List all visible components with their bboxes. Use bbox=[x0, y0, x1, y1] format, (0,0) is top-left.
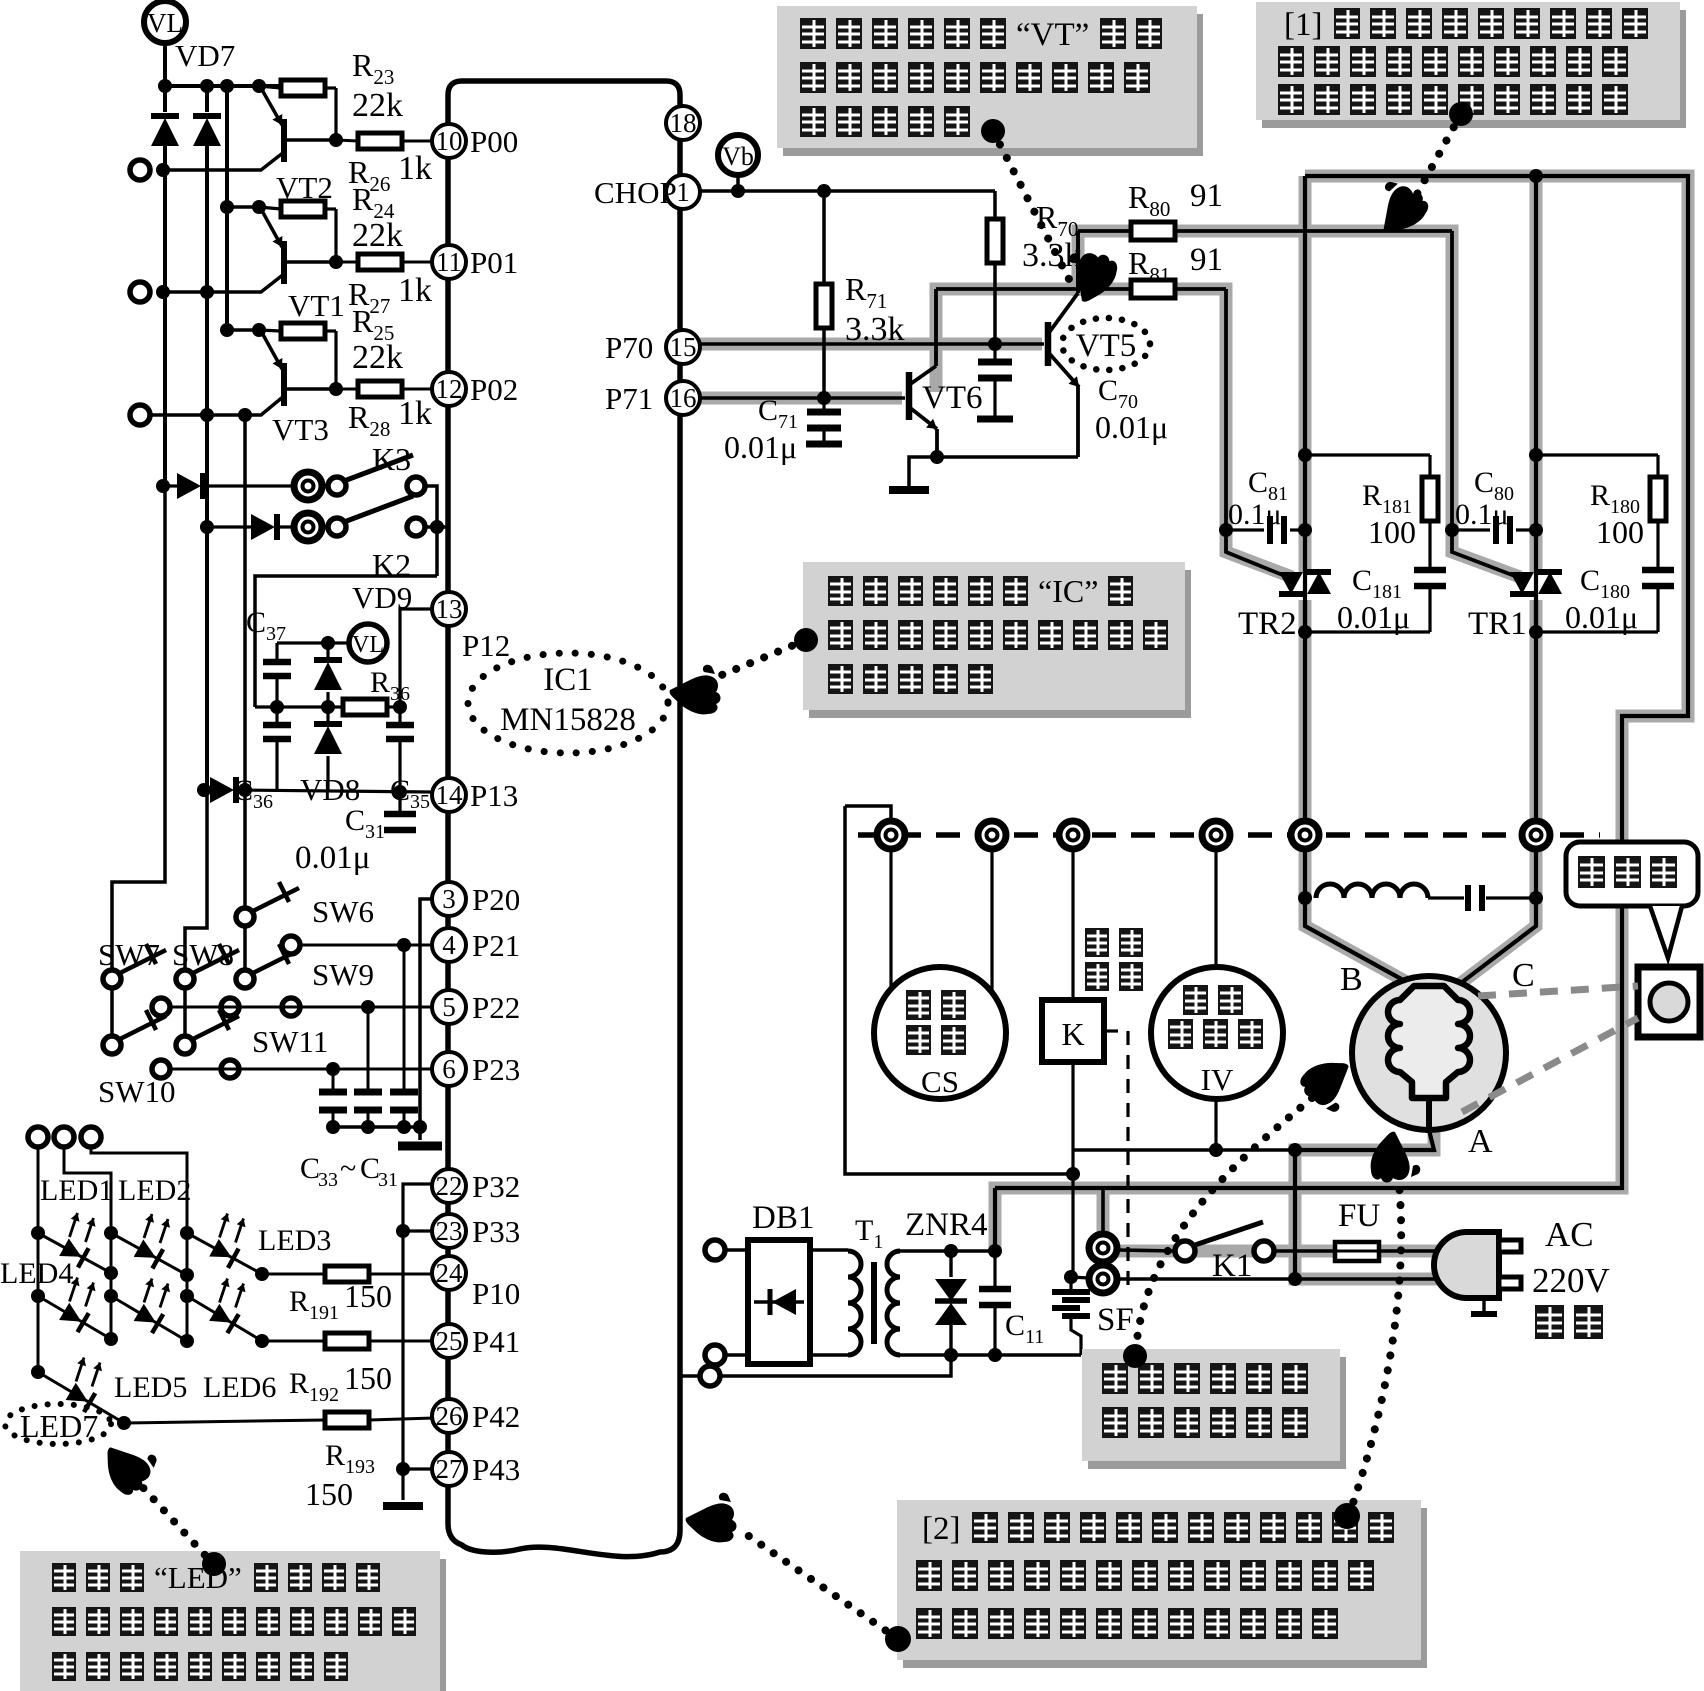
diode VD7 left bbox=[163, 86, 167, 112]
svg-text:“LED”: “LED” bbox=[154, 1560, 242, 1595]
IC pin 23 bbox=[432, 1214, 466, 1248]
svg-text:K1: K1 bbox=[1212, 1248, 1252, 1284]
diode D36 on pin14 wire bbox=[197, 783, 211, 797]
inductor motor aux winding bbox=[1298, 891, 1312, 905]
leader IC note to IC1 bbox=[712, 640, 806, 679]
wire VL rail down left column x165 bbox=[163, 146, 167, 486]
svg-text:1: 1 bbox=[676, 177, 690, 207]
transistor VT3 (PNP) bbox=[281, 363, 287, 406]
svg-text:0.1μ: 0.1μ bbox=[1228, 498, 1282, 531]
resistor R24 22k bbox=[259, 207, 281, 209]
wire IV bottom bbox=[1214, 1099, 1217, 1150]
gray highlighted power path casing bbox=[690, 176, 1688, 1279]
terminal T3out bbox=[130, 405, 150, 425]
svg-text:P21: P21 bbox=[472, 928, 520, 963]
motor M bbox=[1352, 976, 1506, 1130]
svg-text:C: C bbox=[300, 1152, 320, 1185]
IC pin 26 bbox=[432, 1399, 466, 1433]
ground VT6 bbox=[889, 486, 929, 494]
wire CHOP row bbox=[700, 189, 995, 193]
wire VT1 feed row y207 bbox=[227, 205, 259, 209]
wire secondary top bbox=[900, 1249, 995, 1252]
leader VT note to VT5 bbox=[993, 131, 1072, 285]
svg-text:18: 18 bbox=[670, 108, 697, 138]
IC pin 24 bbox=[432, 1256, 466, 1290]
svg-text:P70: P70 bbox=[605, 330, 653, 365]
switch K3 bbox=[294, 472, 322, 500]
svg-text:27: 27 bbox=[436, 1454, 463, 1484]
svg-text:25: 25 bbox=[436, 1326, 463, 1356]
wire R80 to TR1 gate bbox=[1452, 231, 1520, 578]
svg-text:A: A bbox=[1468, 1123, 1493, 1160]
svg-text:LED1: LED1 bbox=[40, 1174, 113, 1207]
wire LED column3 bbox=[91, 1147, 187, 1341]
terminal DB1 in- bbox=[705, 1345, 725, 1365]
wire TR1 rail lower bbox=[1457, 600, 1536, 986]
wire motor A to plug neutral bbox=[1293, 1150, 1297, 1279]
svg-text:SW11: SW11 bbox=[252, 1024, 328, 1059]
svg-text:P02: P02 bbox=[470, 372, 518, 407]
svg-text:VL: VL bbox=[352, 632, 384, 658]
switch K1 bbox=[1175, 1241, 1195, 1261]
capacitor motor run cap bbox=[1428, 896, 1464, 899]
svg-text:23: 23 bbox=[436, 1216, 463, 1246]
wire column x245 down to SW6/SW9 bbox=[243, 415, 247, 917]
svg-text:P71: P71 bbox=[605, 381, 653, 416]
clutch dashed pointer1 bbox=[1478, 986, 1638, 996]
svg-text:14: 14 bbox=[436, 780, 464, 810]
transistor VT5 (NPN) bbox=[1045, 322, 1052, 366]
triac TR2 bbox=[1303, 560, 1307, 632]
svg-text:B: B bbox=[1340, 961, 1363, 998]
wire top supply loop bbox=[995, 176, 1688, 1188]
svg-text:LED2: LED2 bbox=[118, 1174, 191, 1207]
svg-text:FU: FU bbox=[1338, 1198, 1380, 1234]
diode VD9 (zener) bbox=[326, 643, 329, 658]
wire LED column1 bbox=[37, 1147, 40, 1372]
wire TR2 rail upper bbox=[1303, 176, 1307, 560]
capacitor C33 bbox=[332, 1069, 335, 1092]
svg-text:K3: K3 bbox=[372, 441, 411, 477]
svg-text:150: 150 bbox=[344, 1360, 392, 1396]
svg-text:22k: 22k bbox=[352, 339, 403, 376]
svg-text:100: 100 bbox=[1596, 514, 1644, 550]
wire left neutral rail bbox=[845, 806, 891, 823]
wire TR1 rail upper bbox=[1534, 176, 1538, 560]
svg-text:10: 10 bbox=[436, 126, 463, 156]
wire LED row2 to R192 bbox=[262, 1340, 325, 1343]
svg-text:IV: IV bbox=[1201, 1062, 1234, 1097]
svg-text:4: 4 bbox=[442, 930, 456, 960]
bus connector CS2 bbox=[978, 821, 1006, 849]
transformer T1 bbox=[848, 1251, 861, 1355]
IC pin 18 bbox=[666, 106, 700, 140]
svg-text:5: 5 bbox=[442, 992, 456, 1022]
svg-text:~: ~ bbox=[340, 1152, 356, 1185]
svg-text:[2]: [2] bbox=[922, 1511, 960, 1547]
annotation box VT note bbox=[783, 14, 1203, 156]
svg-text:22k: 22k bbox=[352, 217, 403, 254]
diode K3 feed bbox=[156, 479, 170, 493]
snubber R180 100 bbox=[1536, 453, 1658, 456]
svg-text:P42: P42 bbox=[472, 1399, 520, 1434]
IC pin 16 P71 bbox=[666, 381, 700, 415]
switch SW10 bbox=[110, 988, 114, 1036]
IC pin 15 P70 bbox=[666, 330, 700, 364]
wire VL stem bbox=[163, 43, 167, 86]
wire P71 row bbox=[700, 396, 905, 400]
wire plug neutral bbox=[1295, 1277, 1452, 1281]
clutch box bbox=[1638, 967, 1700, 1037]
resistor R71 3.3k bbox=[822, 191, 826, 284]
resistor R23 22k bbox=[259, 86, 281, 88]
capacitor C70 0.01u bbox=[993, 344, 996, 362]
bus connector IV bbox=[1202, 821, 1230, 849]
wire emitter common to ground bbox=[909, 457, 1078, 487]
wire K1 to FU bbox=[1274, 1249, 1335, 1253]
svg-text:SW7: SW7 bbox=[98, 937, 160, 972]
mech dashed link K to K1 bbox=[1104, 1029, 1128, 1032]
capacitor C180 0.01u bbox=[1656, 521, 1659, 570]
switch coil K box bbox=[1071, 849, 1074, 1000]
inlet valve IV circle bbox=[1214, 849, 1217, 975]
wire K3 output to K2 node and IC edge bbox=[425, 486, 437, 576]
svg-text:P33: P33 bbox=[472, 1214, 520, 1249]
diode VD7 right bbox=[205, 86, 209, 112]
svg-text:0.01μ: 0.01μ bbox=[1095, 409, 1168, 445]
annotation box [1] note bbox=[1262, 10, 1686, 128]
annotation box IC note bbox=[809, 570, 1191, 718]
svg-text:SF: SF bbox=[1097, 1302, 1134, 1338]
wire pin22/23/27 ground column bbox=[403, 1184, 433, 1500]
IC U1 IC1 MN15828 body outline bbox=[448, 81, 680, 1557]
capacitor C181 0.01u bbox=[1428, 521, 1431, 570]
ground pin27 column bbox=[383, 1502, 423, 1510]
wire SW9 column continue bbox=[243, 926, 247, 970]
resistor R36 bbox=[343, 699, 387, 715]
IC pin 6 bbox=[432, 1052, 466, 1086]
svg-text:“IC”: “IC” bbox=[1038, 573, 1098, 609]
resistor R193 150 bbox=[325, 1412, 369, 1428]
svg-text:100: 100 bbox=[1368, 514, 1416, 550]
IC pin 22 bbox=[432, 1169, 466, 1203]
AC plug bbox=[1434, 1232, 1499, 1298]
terminal LEDcol1 bbox=[28, 1127, 48, 1147]
connector pair upper bbox=[1089, 1234, 1117, 1262]
svg-text:C: C bbox=[360, 1152, 380, 1185]
wire LED row1 to R191 bbox=[262, 1273, 325, 1276]
snubber R181 100 bbox=[1305, 453, 1430, 456]
switch SW8 bbox=[176, 970, 194, 988]
wire second column x207 down bbox=[205, 146, 209, 790]
bus connector CS1 bbox=[877, 821, 905, 849]
wire AC return to ZNR node bbox=[681, 1374, 700, 1377]
svg-text:K: K bbox=[1061, 1016, 1084, 1052]
svg-text:31: 31 bbox=[378, 1169, 398, 1191]
svg-text:15: 15 bbox=[670, 332, 697, 362]
svg-text:LED7: LED7 bbox=[20, 1408, 98, 1444]
wire R81 to TR2 gate bbox=[1226, 289, 1290, 578]
clutch dashed pointer2 bbox=[1462, 1018, 1638, 1112]
wire SW10/11 row to pin6 bbox=[170, 1068, 433, 1071]
svg-text:DB1: DB1 bbox=[752, 1200, 814, 1236]
diode VD8 (zener) bbox=[326, 707, 329, 722]
capacitor C81 0.1u bbox=[1226, 528, 1264, 531]
svg-text:Vb: Vb bbox=[722, 142, 754, 171]
LED7 dotted ellipse bbox=[5, 1404, 111, 1444]
capacitor C32 bbox=[367, 1007, 370, 1092]
leader [2] to IC bottom bbox=[740, 1530, 898, 1639]
svg-text:TR1: TR1 bbox=[1468, 606, 1527, 642]
svg-text:150: 150 bbox=[305, 1476, 353, 1512]
switch SW7 bbox=[103, 970, 121, 988]
varistor ZNR4 bbox=[949, 1251, 952, 1277]
leader motor A to [2] bbox=[1352, 1175, 1401, 1506]
wire motor A lead bbox=[1295, 1130, 1434, 1150]
transistor VT2 (PNP) bbox=[281, 119, 287, 162]
svg-text:CHOP: CHOP bbox=[594, 175, 677, 210]
diode K2 feed bbox=[200, 520, 214, 534]
resistor R26 1k bbox=[336, 140, 358, 141]
svg-text:16: 16 bbox=[670, 383, 697, 413]
connector pair lower bbox=[1089, 1265, 1117, 1293]
wire SW6 row to pin4 bbox=[300, 944, 432, 947]
LED LED3 bbox=[187, 1233, 262, 1274]
terminal T2out bbox=[130, 282, 150, 302]
capacitor C71 0.01u bbox=[822, 398, 825, 412]
triac TR1 bbox=[1534, 560, 1538, 632]
svg-text:26: 26 bbox=[436, 1401, 463, 1431]
wire jog to SW7 column bbox=[112, 486, 165, 968]
svg-text:SW8: SW8 bbox=[172, 937, 234, 972]
wire connector pair riser bbox=[1101, 1188, 1105, 1246]
wire K bottom bbox=[1071, 1062, 1074, 1277]
capacitor C80 0.1u bbox=[1452, 528, 1490, 531]
svg-text:P20: P20 bbox=[472, 882, 520, 917]
wire VD9 cell top bbox=[255, 576, 437, 707]
IC pin 13 bbox=[432, 592, 466, 626]
svg-text:P13: P13 bbox=[470, 778, 518, 813]
LED LED6 bbox=[187, 1296, 262, 1341]
capacitor C36 bbox=[275, 707, 278, 725]
wire P70 row bbox=[700, 342, 1044, 346]
svg-text:VT6: VT6 bbox=[922, 380, 983, 416]
svg-text:33: 33 bbox=[318, 1169, 338, 1191]
resistor R28 1k bbox=[336, 388, 358, 391]
svg-text:P12: P12 bbox=[462, 628, 510, 663]
svg-text:TR2: TR2 bbox=[1238, 606, 1297, 642]
svg-text:11: 11 bbox=[436, 247, 462, 277]
wire upper connector to K1 bbox=[1117, 1250, 1176, 1251]
capacitor C37 bbox=[275, 643, 278, 662]
svg-text:6: 6 bbox=[442, 1054, 456, 1084]
svg-text:LED4: LED4 bbox=[0, 1257, 73, 1290]
svg-text:13: 13 bbox=[436, 594, 463, 624]
safety switch SF bbox=[1069, 1277, 1072, 1292]
svg-text:SW9: SW9 bbox=[312, 957, 374, 992]
svg-text:VT5: VT5 bbox=[1076, 328, 1137, 364]
svg-text:C: C bbox=[1512, 957, 1535, 994]
bus connector K bbox=[1059, 821, 1087, 849]
svg-text:1k: 1k bbox=[398, 272, 432, 309]
capacitor C35 bbox=[398, 707, 401, 725]
svg-text:SW6: SW6 bbox=[312, 894, 374, 929]
svg-text:3: 3 bbox=[442, 884, 456, 914]
svg-text:91: 91 bbox=[1190, 242, 1223, 278]
svg-text:“VT”: “VT” bbox=[1016, 17, 1089, 53]
fuse FU bbox=[1335, 1242, 1379, 1261]
svg-text:P10: P10 bbox=[472, 1276, 520, 1311]
svg-text:SW10: SW10 bbox=[98, 1074, 176, 1109]
transistor VT1 (PNP) bbox=[281, 241, 287, 284]
IC1 dotted ellipse bbox=[468, 653, 668, 753]
annotation box motor note bbox=[1088, 1357, 1346, 1469]
svg-text:91: 91 bbox=[1190, 178, 1223, 214]
IC pin 12 bbox=[432, 372, 466, 406]
svg-text:LED5: LED5 bbox=[114, 1371, 187, 1404]
svg-text:VD7: VD7 bbox=[175, 38, 235, 73]
svg-text:1k: 1k bbox=[398, 395, 432, 432]
wire FU to plug bbox=[1379, 1249, 1452, 1253]
wire caps common to ground bbox=[333, 1125, 420, 1129]
wire pin13 link bbox=[400, 609, 431, 707]
svg-text:0.1μ: 0.1μ bbox=[1455, 498, 1509, 531]
IC pin 11 bbox=[432, 245, 466, 279]
wire LED7 to R193 bbox=[124, 1420, 325, 1423]
svg-text:220V: 220V bbox=[1532, 1261, 1610, 1300]
wire lower connector row bbox=[1071, 1277, 1089, 1278]
leader LED note to LED7 bbox=[136, 1480, 215, 1566]
wire SW7/8/9 row to pin5 bbox=[170, 1006, 432, 1009]
svg-text:150: 150 bbox=[344, 1278, 392, 1314]
svg-text:P32: P32 bbox=[472, 1169, 520, 1204]
clutch callout box bbox=[1566, 842, 1698, 906]
LED LED4 bbox=[38, 1296, 111, 1339]
power node Vb bbox=[718, 135, 758, 175]
svg-text:P23: P23 bbox=[472, 1052, 520, 1087]
IC pin 1 CHOP bbox=[666, 175, 700, 209]
wire VL node row bbox=[277, 641, 349, 644]
resistor R191 150 bbox=[325, 1266, 369, 1282]
leader IV-motor hand bbox=[1137, 1098, 1312, 1340]
wire pin3 to ground rail bbox=[420, 899, 431, 1140]
wire TR2 snubber bottom bbox=[1305, 630, 1430, 633]
LED LED2 bbox=[111, 1233, 187, 1275]
bus connector TR2 bbox=[1291, 821, 1319, 849]
LED LED1 bbox=[38, 1233, 111, 1273]
wire VT3 feed row y330 bbox=[227, 328, 259, 332]
bus connector TR1 bbox=[1522, 821, 1550, 849]
svg-text:24: 24 bbox=[436, 1258, 464, 1288]
svg-text:VT3: VT3 bbox=[272, 412, 329, 447]
resistor R81 91 bbox=[1078, 287, 1131, 291]
svg-text:0.01μ: 0.01μ bbox=[1565, 599, 1638, 635]
terminal ACret bbox=[700, 1366, 720, 1386]
IC pin 4 bbox=[432, 928, 466, 962]
svg-text:P01: P01 bbox=[470, 245, 518, 280]
resistor R80 91 bbox=[1078, 229, 1131, 233]
wire DB1 to T1 bbox=[810, 1248, 848, 1251]
switch SW9 bbox=[236, 970, 254, 988]
svg-text:P43: P43 bbox=[472, 1452, 520, 1487]
resistor R70 3.3k bbox=[993, 191, 997, 219]
capacitor C31 0.01u bbox=[398, 792, 401, 812]
switch K2 bbox=[294, 513, 322, 541]
wire VT5 collector node bbox=[936, 287, 1078, 291]
svg-text:12: 12 bbox=[436, 374, 463, 404]
IC pin 10 bbox=[432, 124, 466, 158]
ground C33C31 bbox=[398, 1142, 442, 1151]
IC pin 14 bbox=[432, 778, 466, 812]
wire jog to SW8 column bbox=[185, 790, 207, 968]
IC pin 5 bbox=[432, 990, 466, 1024]
resistor R27 1k bbox=[336, 261, 358, 264]
svg-text:LED6: LED6 bbox=[203, 1371, 276, 1404]
wire top supply rail y86 bbox=[165, 84, 281, 88]
terminal LEDcol2 bbox=[54, 1127, 74, 1147]
svg-text:P41: P41 bbox=[472, 1324, 520, 1359]
svg-text:IC1: IC1 bbox=[543, 662, 593, 698]
wire middle node y707 bbox=[255, 705, 343, 708]
svg-text:ZNR4: ZNR4 bbox=[905, 1207, 988, 1243]
wire LED column2 bbox=[64, 1147, 111, 1339]
transistor VT6 (NPN) bbox=[906, 372, 913, 420]
terminal LEDcol3 bbox=[81, 1127, 101, 1147]
svg-text:P00: P00 bbox=[470, 124, 518, 159]
dashed bus bbox=[858, 832, 1600, 838]
leader [1] note to supply wire bbox=[1416, 114, 1461, 196]
annotation box [2] note bbox=[903, 1508, 1427, 1668]
wire TR1 snubber bottom bbox=[1536, 630, 1658, 633]
svg-text:[1]: [1] bbox=[1284, 7, 1322, 43]
terminal T1out bbox=[130, 160, 150, 180]
svg-text:1k: 1k bbox=[398, 150, 432, 187]
svg-text:22: 22 bbox=[436, 1171, 463, 1201]
svg-text:22k: 22k bbox=[352, 87, 403, 124]
LED LED7 bbox=[38, 1372, 124, 1423]
switch SW6 bbox=[236, 908, 254, 926]
wire TR2 rail lower bbox=[1305, 600, 1414, 986]
svg-text:AC: AC bbox=[1545, 1215, 1594, 1254]
wire base VT2 bbox=[284, 138, 336, 142]
bridge rectifier DB1 bbox=[725, 1248, 748, 1251]
switch SW11 bbox=[183, 988, 187, 1036]
annotation box LED note bbox=[26, 1559, 446, 1691]
LED LED5 bbox=[111, 1296, 187, 1341]
svg-text:0.01μ: 0.01μ bbox=[295, 840, 370, 876]
svg-text:MN15828: MN15828 bbox=[500, 702, 636, 738]
resistor R25 22k bbox=[259, 330, 281, 331]
resistor R192 150 bbox=[325, 1333, 369, 1349]
IC pin 25 bbox=[432, 1324, 466, 1358]
terminal DB1 in+ bbox=[705, 1240, 725, 1260]
svg-text:VL: VL bbox=[147, 8, 183, 38]
capacitor C11 bbox=[993, 1251, 996, 1288]
VT5 dotted ellipse bbox=[1062, 318, 1150, 370]
capacitor C31b bbox=[403, 945, 406, 1092]
svg-text:VT1: VT1 bbox=[288, 288, 345, 323]
wire ZNR to gray loop riser bbox=[993, 1188, 997, 1251]
svg-text:P22: P22 bbox=[472, 990, 520, 1025]
svg-text:LED3: LED3 bbox=[258, 1224, 331, 1257]
svg-text:0.01μ: 0.01μ bbox=[724, 429, 797, 465]
power node VL small circle bbox=[349, 624, 387, 662]
wire third column x227 down to VT1 row bbox=[225, 86, 229, 330]
svg-text:0.01μ: 0.01μ bbox=[1337, 599, 1410, 635]
svg-text:CS: CS bbox=[921, 1064, 959, 1099]
IC pin 27 bbox=[432, 1452, 466, 1486]
IC pin 3 bbox=[432, 882, 466, 916]
